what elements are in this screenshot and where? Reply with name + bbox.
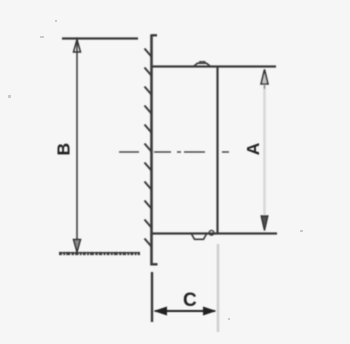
bottom clip (192, 234, 207, 239)
bottom clip screw (209, 230, 214, 235)
B top arrowhead (74, 40, 81, 53)
A dimension line (263, 71, 266, 229)
louver tick 8 (145, 182, 152, 191)
C left arrowhead (154, 307, 168, 316)
louver tick 11 (145, 239, 152, 248)
C right arrowhead (203, 307, 217, 316)
svg-text:C: C (183, 290, 197, 311)
louver tick 9 (145, 201, 152, 210)
top clip notch (200, 62, 205, 63)
louver top hook (151, 34, 157, 36)
C dimension line (155, 310, 215, 312)
duct bottom line (152, 232, 278, 234)
B dimension line (76, 41, 78, 251)
faint scan specks (8, 20, 303, 320)
B bottom arrowhead (74, 240, 81, 253)
svg-text:B: B (54, 143, 74, 156)
louver tick knots (150, 55, 153, 248)
A bottom arrowhead (261, 216, 268, 231)
duct right line (216, 67, 218, 234)
louver bottom foot (151, 263, 158, 265)
louver face line (150, 35, 153, 266)
C right extension line (217, 244, 220, 332)
louver tick 7 (145, 163, 152, 172)
A top arrow stub (264, 84, 266, 89)
centerline (119, 151, 230, 153)
C left extension line (151, 272, 153, 322)
louver tick 10 (145, 220, 152, 229)
B bottom extension line (59, 252, 140, 254)
louver tick 4 (145, 106, 152, 115)
svg-text:A: A (243, 142, 263, 155)
louver tick 6 (145, 144, 152, 153)
B bottom extension line texture (59, 252, 140, 255)
louver tick 3 (145, 87, 152, 96)
B top extension line (62, 37, 138, 39)
louver tick 2 (145, 68, 152, 77)
duct top line (152, 65, 277, 67)
louver tick 1 (145, 49, 152, 58)
top clip (194, 63, 210, 66)
louver tick 5 (145, 125, 152, 134)
A top arrowhead (261, 70, 268, 85)
